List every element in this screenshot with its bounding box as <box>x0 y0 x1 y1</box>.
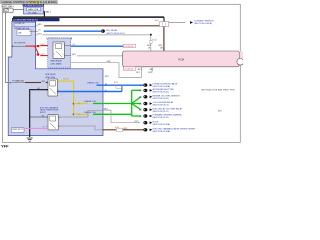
svg-text:(BR): (BR) <box>38 24 42 26</box>
svg-text:WF1: WF1 <box>148 72 152 74</box>
junction dots yellow <box>73 103 75 105</box>
row active air shutter <box>139 88 235 94</box>
page frame border <box>3 4 241 142</box>
svg-text:BATT 2(B+-): BATT 2(B+-) <box>2 5 14 8</box>
connector label box lower <box>123 67 135 70</box>
wire yellow to green CHANGE GN <box>74 103 88 105</box>
PCM bottom pins <box>140 67 142 71</box>
IG switch box <box>14 22 35 26</box>
svg-text:CHANGE 2 DN: CHANGE 2 DN <box>84 111 96 114</box>
svg-text:(WT): (WT) <box>107 61 112 63</box>
E-02 junction connector <box>160 22 169 27</box>
C-05 dashed block <box>48 38 71 68</box>
svg-text:(SECTION 09-40): (SECTION 09-40) <box>153 92 169 94</box>
svg-text:(DMC MAIN): (DMC MAIN) <box>51 63 62 66</box>
svg-text:MAIN 120A: MAIN 120A <box>28 8 39 11</box>
svg-text:(L): (L) <box>105 84 108 86</box>
connector into PCM <box>150 36 152 52</box>
svg-text:(BR): (BR) <box>42 81 46 83</box>
svg-text:(SECTION 01-40): (SECTION 01-40) <box>153 98 169 100</box>
connector label box upper <box>123 44 135 47</box>
row EVVT driver <box>143 127 195 133</box>
fuse F/L inside battery box <box>5 9 9 12</box>
svg-text:MAIN RELAY: MAIN RELAY <box>51 60 63 63</box>
title bar <box>0 0 58 4</box>
svg-text:CHANGE 4 GN: CHANGE 4 GN <box>87 82 99 85</box>
svg-text:(ENG SUB): (ENG SUB) <box>45 77 55 79</box>
svg-text:CHARGE, STARTING SYSTEM [2.3L: CHARGE, STARTING SYSTEM [2.3L (L3) ENGIN… <box>1 0 57 4</box>
svg-text:(SECTION 01-40A): (SECTION 01-40A) <box>153 85 171 88</box>
svg-text:2: 2 <box>54 54 55 56</box>
svg-text:(WT): (WT) <box>104 108 108 110</box>
svg-text:IG1 SW ON: IG1 SW ON <box>15 23 25 25</box>
svg-text:2A5: 2A5 <box>137 68 140 71</box>
svg-text:(WT): (WT) <box>135 121 139 123</box>
svg-text:PTC/HTR SW: PTC/HTR SW <box>14 42 25 44</box>
wire black to ground <box>30 90 48 137</box>
fuse 15A box <box>17 30 31 36</box>
svg-text:C-05: C-05 <box>20 128 24 130</box>
svg-text:CURRENT SENSOR: CURRENT SENSOR <box>194 20 214 22</box>
row engine oil level sensor <box>139 95 180 100</box>
svg-text:(SECTION 09-01): (SECTION 09-01) <box>153 105 169 107</box>
wire white WT to PCM <box>36 34 38 36</box>
svg-text:1: 1 <box>54 44 55 46</box>
svg-text:E-03: E-03 <box>114 82 118 84</box>
svg-text:(SECTION 05-17): (SECTION 05-17) <box>153 111 169 113</box>
row cooling fan <box>139 101 174 107</box>
svg-text:2A8: 2A8 <box>150 68 153 71</box>
svg-text:(G): (G) <box>139 90 142 92</box>
row forward sensing camera <box>139 114 182 120</box>
svg-text:(WT): (WT) <box>41 54 45 56</box>
svg-text:(SECTION 01-40A): (SECTION 01-40A) <box>153 130 171 133</box>
svg-text:(WT): (WT) <box>41 44 45 46</box>
svg-text:EX (Y): EX (Y) <box>63 79 69 81</box>
svg-text:(SECTION 0140-B): (SECTION 0140-B) <box>194 23 212 25</box>
wire blue from sub relay <box>57 91 122 93</box>
splice connectors red <box>37 45 39 47</box>
wire to current sensor <box>169 22 186 24</box>
svg-text:F/L 100A: F/L 100A <box>28 11 37 14</box>
svg-text:(WT): (WT) <box>37 33 42 35</box>
svg-text:4: 4 <box>59 117 60 119</box>
relay block header (top) <box>23 4 44 6</box>
row purge solenoid <box>140 82 178 88</box>
M/L relay box <box>24 7 44 15</box>
relay MAIN RELAY (DMC MAIN) <box>53 42 64 58</box>
battery box <box>3 8 13 13</box>
wire blue IG1 <box>29 30 38 32</box>
svg-text:(G): (G) <box>139 116 142 118</box>
svg-text:(WT): (WT) <box>105 76 110 78</box>
PCM block <box>123 51 244 67</box>
splice connector box <box>116 85 122 89</box>
svg-text:(L): (L) <box>38 30 41 32</box>
svg-text:E-03: E-03 <box>115 127 119 129</box>
svg-text:5: 5 <box>59 126 60 128</box>
svg-text:C-05 (E-01): C-05 (E-01) <box>124 69 134 71</box>
PUMP JM box <box>12 128 25 133</box>
svg-text:E-02: E-02 <box>155 20 159 22</box>
svg-text:(WT): (WT) <box>72 54 77 56</box>
wire brown down to PCM <box>163 27 165 52</box>
connector to key relay <box>101 29 105 32</box>
svg-text:C-05 (E-01): C-05 (E-01) <box>124 46 134 48</box>
svg-text:(G): (G) <box>139 103 142 105</box>
arrow current sensor <box>186 21 194 24</box>
green fan hub <box>132 90 141 116</box>
svg-text:(G): (G) <box>139 110 142 112</box>
svg-text:(B): (B) <box>37 88 40 90</box>
svg-text:(L): (L) <box>140 85 143 87</box>
wire PTC to relays <box>12 45 26 47</box>
wire WT from EVVT to HO2S row <box>58 110 102 117</box>
svg-text:F/L MAIN 30A: F/L MAIN 30A <box>12 80 24 83</box>
wire WT from main relay to PCM <box>64 55 70 57</box>
wire WT lower from relay block <box>71 63 142 78</box>
svg-text:WITH ACTIVE AIR SHUTTER: WITH ACTIVE AIR SHUTTER <box>201 89 235 92</box>
wire battery to relay block <box>13 9 23 11</box>
wire yellow from sub relay <box>57 81 73 114</box>
svg-text:CHANGE 2 GN: CHANGE 2 GN <box>84 100 96 103</box>
wire brown BAT feed <box>36 25 38 27</box>
svg-text:(SECTION 09-19): (SECTION 09-19) <box>153 117 169 119</box>
svg-text:SUB RELAY: SUB RELAY <box>45 73 56 76</box>
svg-text:PCM: PCM <box>179 58 184 61</box>
wire pink <box>24 127 48 129</box>
svg-text:1B4: 1B4 <box>160 47 163 49</box>
svg-text:(G): (G) <box>139 97 142 99</box>
wire battery down left side <box>6 13 10 83</box>
battery label <box>2 5 12 7</box>
wire BAT thick black <box>13 12 164 22</box>
svg-text:KEY RELAY: KEY RELAY <box>106 29 118 32</box>
wire WT from EVVT lower / brown to EVVT driver <box>58 126 102 130</box>
fuse MAIN 120A <box>27 7 41 10</box>
svg-text:YFF: YFF <box>1 144 9 149</box>
C-01 block body (narrow) <box>8 21 103 135</box>
svg-text:E-04: E-04 <box>152 39 156 41</box>
svg-text:(SECTION 01-40A): (SECTION 01-40A) <box>153 123 171 126</box>
ground <box>27 138 33 141</box>
svg-text:ENGINE IGN 15A: ENGINE IGN 15A <box>15 27 30 30</box>
wire black EVVT coil to ground wire <box>30 116 48 118</box>
svg-text:[EVVT]: [EVVT] <box>40 112 46 114</box>
svg-text:BAT 1: BAT 1 <box>46 10 52 13</box>
svg-text:WF1: WF1 <box>136 72 140 74</box>
wire red branch <box>26 46 53 56</box>
row HO2S <box>143 121 170 126</box>
row electric AT oil pump relay <box>139 107 222 113</box>
wire yellow to green CHANGE DN <box>74 113 88 115</box>
C-01 block header <box>12 18 60 21</box>
junction E-04 <box>150 34 152 36</box>
